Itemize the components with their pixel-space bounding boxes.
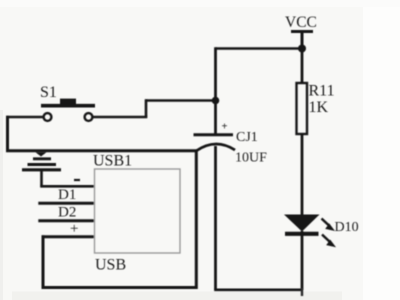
power VCC terminal bar [291,30,313,33]
svg-text:USB1: USB1 [93,153,132,170]
svg-text:R11: R11 [309,83,335,100]
ground bar 1 [33,157,51,160]
svg-text:CJ1: CJ1 [236,130,258,145]
wire USB right side vertical [195,150,198,290]
wire D1 pin [38,202,95,205]
LED D10 emission arrow 1 [322,219,336,232]
paper scan left edge shade [0,110,3,300]
wire minus pin [40,185,95,188]
svg-text:D1: D1 [58,187,76,203]
LED D10 anode triangle [284,215,320,232]
svg-text:USB: USB [95,257,126,274]
switch S1 button bump [60,99,76,105]
ground connection wedge [36,152,47,156]
wire bottom-right tail [301,288,303,296]
wire bottom rail right [214,288,302,291]
wire plus loop left vertical [42,235,45,288]
LED D10 emission arrow 2 [322,235,336,248]
switch S1 actuator bar [41,104,95,108]
wire switch branch horizontal upper [146,99,216,102]
wire switch branch jog [145,99,148,117]
wire capacitor branch upper [214,47,217,134]
svg-text:VCC: VCC [285,14,317,31]
ground bar 3 [22,168,61,171]
capacitor CJ1 curved plate [196,144,235,151]
svg-text:+: + [70,221,78,237]
resistor R11 lead upper [301,49,304,85]
wire ground rail [6,149,198,152]
wire LED cathode down [301,231,304,290]
svg-text:D10: D10 [335,220,359,235]
wire switch right lead [93,116,148,119]
wire ground to minus pin [40,170,43,187]
switch S1 left contact [44,113,52,121]
paper scan bottom shadow smear [12,292,342,300]
svg-text:+: + [222,122,228,133]
svg-text:D2: D2 [58,205,76,221]
wire plus loop bottom [42,286,198,289]
connector USB1 body [95,169,181,253]
capacitor CJ1 top plate [194,133,234,136]
wire resistor to LED [301,134,304,216]
wire D2 pin [38,219,95,222]
wire top rail [216,47,303,50]
node switch-branch junction dot [212,97,220,105]
paper scan top margin lighter [0,0,400,7]
svg-text:10UF: 10UF [235,151,267,166]
switch S1 right contact [85,113,93,121]
svg-text:1K: 1K [309,99,329,116]
node VCC junction dot [298,45,306,53]
LED D10 cathode bar [285,232,319,236]
ground bar 2 [28,163,57,166]
wire plus pin [42,235,95,238]
resistor R11 body [297,83,308,134]
wire switch left lead [7,116,44,119]
wire left vertical [6,116,9,152]
svg-text:S1: S1 [40,84,57,101]
wire VCC stub [301,32,304,49]
pin minus label [74,179,80,181]
paper scan whiter right margin [363,0,400,300]
wire capacitor branch lower [214,146,217,290]
